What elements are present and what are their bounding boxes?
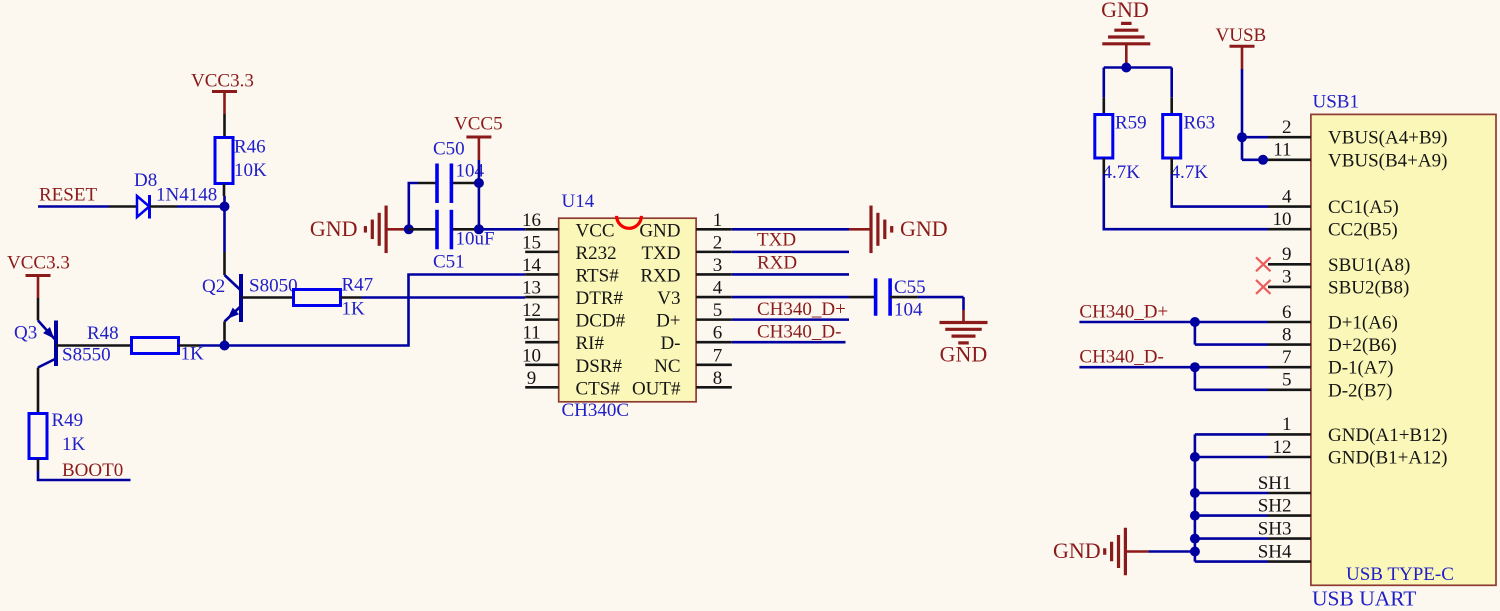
- svg-text:10: 10: [1273, 209, 1292, 230]
- svg-text:9: 9: [1282, 244, 1292, 265]
- wire GND to node C: [386, 228, 409, 231]
- net label RXD: [757, 252, 797, 273]
- svg-text:RTS#: RTS#: [576, 265, 620, 286]
- svg-text:13: 13: [522, 278, 541, 299]
- svg-text:DCD#: DCD#: [576, 311, 626, 332]
- node O junction: [1190, 547, 1200, 557]
- U14 pin 11 RI# stub: [522, 323, 604, 355]
- svg-text:12: 12: [1273, 437, 1292, 458]
- svg-text:Q3: Q3: [14, 323, 37, 344]
- USB1 pin 3 SBU2(B8) stub: [1268, 267, 1409, 299]
- wire node B to U14 RTS#: [225, 275, 526, 346]
- wire R49 to BOOT0: [38, 459, 131, 481]
- U14 pin 6 D- stub: [660, 323, 731, 355]
- svg-text:USB UART: USB UART: [1312, 587, 1416, 611]
- svg-text:6: 6: [713, 323, 723, 344]
- capacitor C55: [876, 277, 926, 321]
- node H junction: [1258, 155, 1268, 165]
- svg-text:BOOT0: BOOT0: [62, 460, 123, 481]
- svg-text:D+2(B6): D+2(B6): [1328, 335, 1397, 356]
- wire VCC3.3 to Q3 emitter: [37, 298, 40, 321]
- svg-text:10K: 10K: [234, 160, 267, 181]
- USB1 pin 6 D+1(A6) stub: [1268, 302, 1398, 334]
- net label CH340_D+ (right): [1079, 301, 1168, 322]
- svg-text:9: 9: [527, 368, 537, 389]
- svg-text:CH340C: CH340C: [562, 400, 630, 421]
- svg-text:R49: R49: [52, 410, 84, 431]
- power flag VCC5: [454, 114, 503, 161]
- wire cap left leg: [409, 183, 418, 229]
- svg-text:4.7K: 4.7K: [1103, 162, 1141, 183]
- node I junction: [1190, 317, 1200, 327]
- svg-text:D-: D-: [660, 333, 680, 354]
- U14 pin 4 V3 stub: [657, 278, 732, 310]
- transistor Q2 S8050: [202, 274, 298, 322]
- svg-text:SH2: SH2: [1258, 495, 1292, 516]
- wire CH340_D+ to D+ pins: [1079, 322, 1268, 345]
- resistor R63: [1163, 113, 1215, 183]
- svg-text:VCC3.3: VCC3.3: [191, 71, 254, 92]
- svg-text:11: 11: [522, 323, 540, 344]
- svg-text:VUSB: VUSB: [1216, 25, 1267, 46]
- node N junction: [1190, 534, 1200, 544]
- USB1 pin 4 CC1(A5) stub: [1268, 186, 1399, 218]
- no-connect X on SBU2 pin 3: [1256, 280, 1271, 294]
- svg-text:12: 12: [522, 300, 541, 321]
- svg-text:CC1(A5): CC1(A5): [1328, 197, 1399, 218]
- wire node A down to Q2 collector: [223, 207, 226, 276]
- wire TXD: [732, 251, 849, 254]
- svg-text:8: 8: [713, 368, 723, 389]
- svg-text:SH3: SH3: [1258, 518, 1292, 539]
- wire node D to node E: [478, 183, 481, 229]
- node D junction: [474, 178, 484, 188]
- svg-text:D-2(B7): D-2(B7): [1328, 380, 1392, 401]
- net label TXD: [757, 230, 796, 251]
- svg-text:VCC3.3: VCC3.3: [7, 253, 70, 274]
- ground GND (pin 1): [849, 206, 948, 254]
- net label CH340_D+ (left): [757, 299, 846, 320]
- wire VCC3.3 to R46: [223, 114, 226, 138]
- wire GND rail to R59/R63: [1104, 68, 1172, 115]
- USB1 pin 10 CC2(B5) stub: [1268, 209, 1398, 241]
- USB1 pin 1 GND(A1+B12) stub: [1268, 414, 1447, 446]
- USB1 pin 7 D-1(A7) stub: [1268, 347, 1393, 379]
- svg-text:CTS#: CTS#: [576, 378, 621, 399]
- wire D8 to node A: [150, 205, 225, 208]
- svg-text:V3: V3: [657, 288, 680, 309]
- net label CH340_D- (right): [1079, 347, 1163, 368]
- svg-text:7: 7: [713, 345, 723, 366]
- svg-text:3: 3: [1282, 267, 1292, 288]
- svg-text:GND(A1+B12): GND(A1+B12): [1328, 425, 1447, 446]
- svg-text:16: 16: [522, 210, 541, 231]
- no-connect X on SBU1 pin 9: [1256, 257, 1271, 271]
- svg-text:1N4148: 1N4148: [156, 185, 217, 206]
- USB1 pin 11 VBUS(B4+A9) stub: [1268, 140, 1447, 172]
- svg-text:4: 4: [1282, 186, 1292, 207]
- resistor R59: [1095, 113, 1147, 183]
- svg-text:GND: GND: [900, 216, 948, 241]
- svg-text:D8: D8: [134, 170, 157, 191]
- wire CH340_D+ (U14 pin 5): [732, 318, 849, 321]
- node A junction: [220, 202, 230, 212]
- diode D8 1N4148: [134, 170, 217, 219]
- svg-text:104: 104: [894, 300, 923, 321]
- svg-text:USB TYPE-C: USB TYPE-C: [1346, 564, 1454, 585]
- transistor Q3 S8550: [14, 321, 111, 368]
- svg-text:SH1: SH1: [1258, 473, 1292, 494]
- wire R47 to U14 DTR#: [341, 296, 526, 299]
- USB1 pin SH1 stub: [1258, 473, 1311, 494]
- svg-text:GND(B1+A12): GND(B1+A12): [1328, 448, 1447, 469]
- power flag VUSB: [1216, 25, 1267, 69]
- svg-text:Q2: Q2: [202, 276, 225, 297]
- svg-text:D-1(A7): D-1(A7): [1328, 358, 1393, 379]
- wire R59 to CC2: [1104, 158, 1268, 229]
- capacitor C50: [418, 139, 485, 204]
- wire CH340_D- (U14 pin 6): [732, 341, 846, 344]
- resistor R46: [215, 137, 267, 184]
- ground GND (left of C50/C51): [310, 206, 386, 254]
- svg-text:SBU1(A8): SBU1(A8): [1328, 255, 1410, 276]
- node L junction: [1190, 488, 1200, 498]
- svg-text:R48: R48: [87, 323, 119, 344]
- wire R63 to CC1: [1172, 158, 1268, 207]
- U14 pin 5 D+ stub: [656, 300, 732, 332]
- svg-text:1K: 1K: [342, 299, 366, 320]
- U14 pin 2 TXD stub: [641, 232, 731, 264]
- power flag VCC3.3 (net VCC3.3, top): [191, 71, 254, 115]
- svg-text:DTR#: DTR#: [576, 288, 624, 309]
- net label CH340_D- (left): [757, 321, 841, 342]
- svg-text:14: 14: [522, 255, 542, 276]
- wire node E to U14 VCC pin 16: [479, 228, 525, 231]
- node B junction: [220, 341, 230, 351]
- svg-text:7: 7: [1282, 347, 1292, 368]
- U14 pin 12 DCD# stub: [522, 300, 626, 332]
- svg-text:10: 10: [522, 345, 541, 366]
- svg-text:CC2(B5): CC2(B5): [1328, 220, 1398, 241]
- USB1 pin 12 GND(B1+A12) stub: [1268, 437, 1447, 469]
- svg-text:GND: GND: [1101, 0, 1149, 22]
- svg-text:R232: R232: [576, 243, 617, 264]
- resistor R49: [29, 410, 86, 459]
- svg-text:C55: C55: [894, 277, 926, 298]
- svg-text:VBUS(A4+B9): VBUS(A4+B9): [1328, 128, 1447, 149]
- USB1 pin 5 D-2(B7) stub: [1268, 370, 1392, 402]
- svg-text:11: 11: [1273, 140, 1291, 161]
- power flag VCC3.3 (net VCC3.3, left): [7, 253, 70, 299]
- svg-text:5: 5: [1282, 370, 1292, 391]
- node E junction: [474, 224, 484, 234]
- svg-text:DSR#: DSR#: [576, 356, 623, 377]
- wire U14 GND pin1: [732, 228, 849, 231]
- svg-text:8: 8: [1282, 324, 1292, 345]
- U14 pin 9 CTS# stub: [525, 368, 620, 400]
- svg-text:RXD: RXD: [757, 252, 797, 273]
- svg-text:GND: GND: [940, 342, 988, 367]
- svg-text:1: 1: [713, 210, 723, 231]
- USB1 pin 2 VBUS(A4+B9) stub: [1268, 117, 1447, 149]
- wire C55 to GND: [890, 297, 963, 322]
- resistor R47: [294, 275, 374, 320]
- svg-text:3: 3: [713, 255, 723, 276]
- svg-text:GND: GND: [1053, 538, 1101, 563]
- svg-text:OUT#: OUT#: [632, 378, 681, 399]
- svg-text:D+: D+: [656, 311, 680, 332]
- svg-text:CH340_D+: CH340_D+: [757, 299, 846, 320]
- svg-text:6: 6: [1282, 302, 1292, 323]
- resistor R48: [87, 323, 204, 365]
- wire R46 to node A: [223, 184, 226, 207]
- node F junction: [1121, 63, 1131, 73]
- svg-text:4: 4: [713, 278, 723, 299]
- wire Q3 collector to R49: [37, 368, 40, 414]
- USB1 pin SH2 stub: [1258, 495, 1311, 516]
- USB1 pin SH4 stub: [1258, 541, 1311, 562]
- wire CH340_D- to D- pins: [1079, 367, 1268, 390]
- U14 pin 3 RXD stub: [640, 255, 731, 287]
- svg-text:2: 2: [713, 232, 723, 253]
- node C junction: [404, 224, 414, 234]
- svg-text:U14: U14: [562, 191, 595, 212]
- svg-text:S8050: S8050: [249, 276, 298, 297]
- svg-text:2: 2: [1282, 117, 1292, 138]
- svg-text:SH4: SH4: [1258, 541, 1292, 562]
- svg-text:RXD: RXD: [640, 265, 680, 286]
- svg-text:C51: C51: [433, 252, 465, 273]
- U14 pin 15 R232 stub: [522, 232, 617, 264]
- USB1 pin 8 D+2(B6) stub: [1268, 324, 1397, 356]
- svg-text:15: 15: [522, 232, 541, 253]
- svg-text:C50: C50: [433, 139, 465, 160]
- wire R48 to node B: [179, 344, 225, 347]
- svg-text:TXD: TXD: [757, 230, 796, 251]
- svg-text:SBU2(B8): SBU2(B8): [1328, 277, 1409, 298]
- U14 pin 7 NC stub: [654, 345, 732, 377]
- wire VCC5 down to node D: [478, 160, 481, 183]
- svg-text:CH340_D-: CH340_D-: [757, 321, 841, 342]
- node J junction: [1190, 362, 1200, 372]
- USB1 pin SH3 stub: [1258, 518, 1311, 539]
- wire Q2 base: [241, 296, 294, 299]
- svg-text:5: 5: [713, 300, 723, 321]
- svg-text:CH340_D+: CH340_D+: [1079, 301, 1168, 322]
- wire RESET: [38, 205, 137, 208]
- svg-text:GND: GND: [310, 216, 358, 241]
- net label RESET: [39, 185, 97, 206]
- ic U14 CH340C body: [559, 191, 696, 421]
- svg-text:S8550: S8550: [62, 345, 111, 366]
- U14 pin 14 RTS# stub: [522, 255, 619, 287]
- wire VUSB to VBUS pins: [1242, 69, 1268, 160]
- svg-text:CH340_D-: CH340_D-: [1079, 347, 1163, 368]
- svg-text:D+1(A6): D+1(A6): [1328, 313, 1398, 334]
- ground GND (top right): [1101, 0, 1150, 68]
- connector USB1 body: [1311, 92, 1496, 586]
- wire Q2 emitter to node B: [223, 322, 226, 346]
- svg-text:GND: GND: [639, 220, 680, 241]
- svg-text:R47: R47: [342, 275, 374, 296]
- ground GND (below C55): [940, 323, 988, 367]
- svg-text:USB1: USB1: [1313, 92, 1359, 113]
- U14 pin 10 DSR# stub: [522, 345, 622, 377]
- svg-text:RI#: RI#: [576, 333, 605, 354]
- svg-text:VBUS(B4+A9): VBUS(B4+A9): [1328, 150, 1447, 171]
- USB1 pin 9 SBU1(A8) stub: [1268, 244, 1410, 276]
- capacitor C51: [409, 210, 495, 273]
- U14 pin 16 VCC stub: [522, 210, 615, 242]
- svg-text:1K: 1K: [62, 434, 86, 455]
- U14 pin 8 OUT# stub: [632, 368, 732, 400]
- svg-text:R46: R46: [234, 137, 266, 158]
- svg-text:RESET: RESET: [39, 185, 97, 206]
- wire Q3 base: [56, 344, 132, 347]
- U14 pin 1 GND stub: [639, 210, 731, 242]
- svg-text:TXD: TXD: [641, 243, 680, 264]
- svg-text:VCC5: VCC5: [454, 114, 503, 135]
- wire GND/shield bus: [1195, 434, 1268, 561]
- svg-text:1: 1: [1282, 414, 1292, 435]
- wire V3 to C55: [732, 296, 876, 299]
- sheet title USB UART: [1312, 587, 1416, 611]
- svg-text:R63: R63: [1184, 113, 1216, 134]
- svg-text:4.7K: 4.7K: [1171, 162, 1209, 183]
- svg-text:R59: R59: [1115, 113, 1147, 134]
- svg-text:VCC: VCC: [576, 220, 615, 241]
- U14 pin 13 DTR# stub: [522, 278, 624, 310]
- ground GND (bottom left of USB1): [1053, 528, 1125, 576]
- node K junction: [1190, 452, 1200, 462]
- wire GND to shield bus: [1125, 550, 1195, 553]
- svg-text:NC: NC: [654, 356, 680, 377]
- node G junction: [1237, 132, 1247, 142]
- net label BOOT0: [62, 460, 123, 481]
- wire RXD: [732, 273, 849, 276]
- node M junction: [1190, 511, 1200, 521]
